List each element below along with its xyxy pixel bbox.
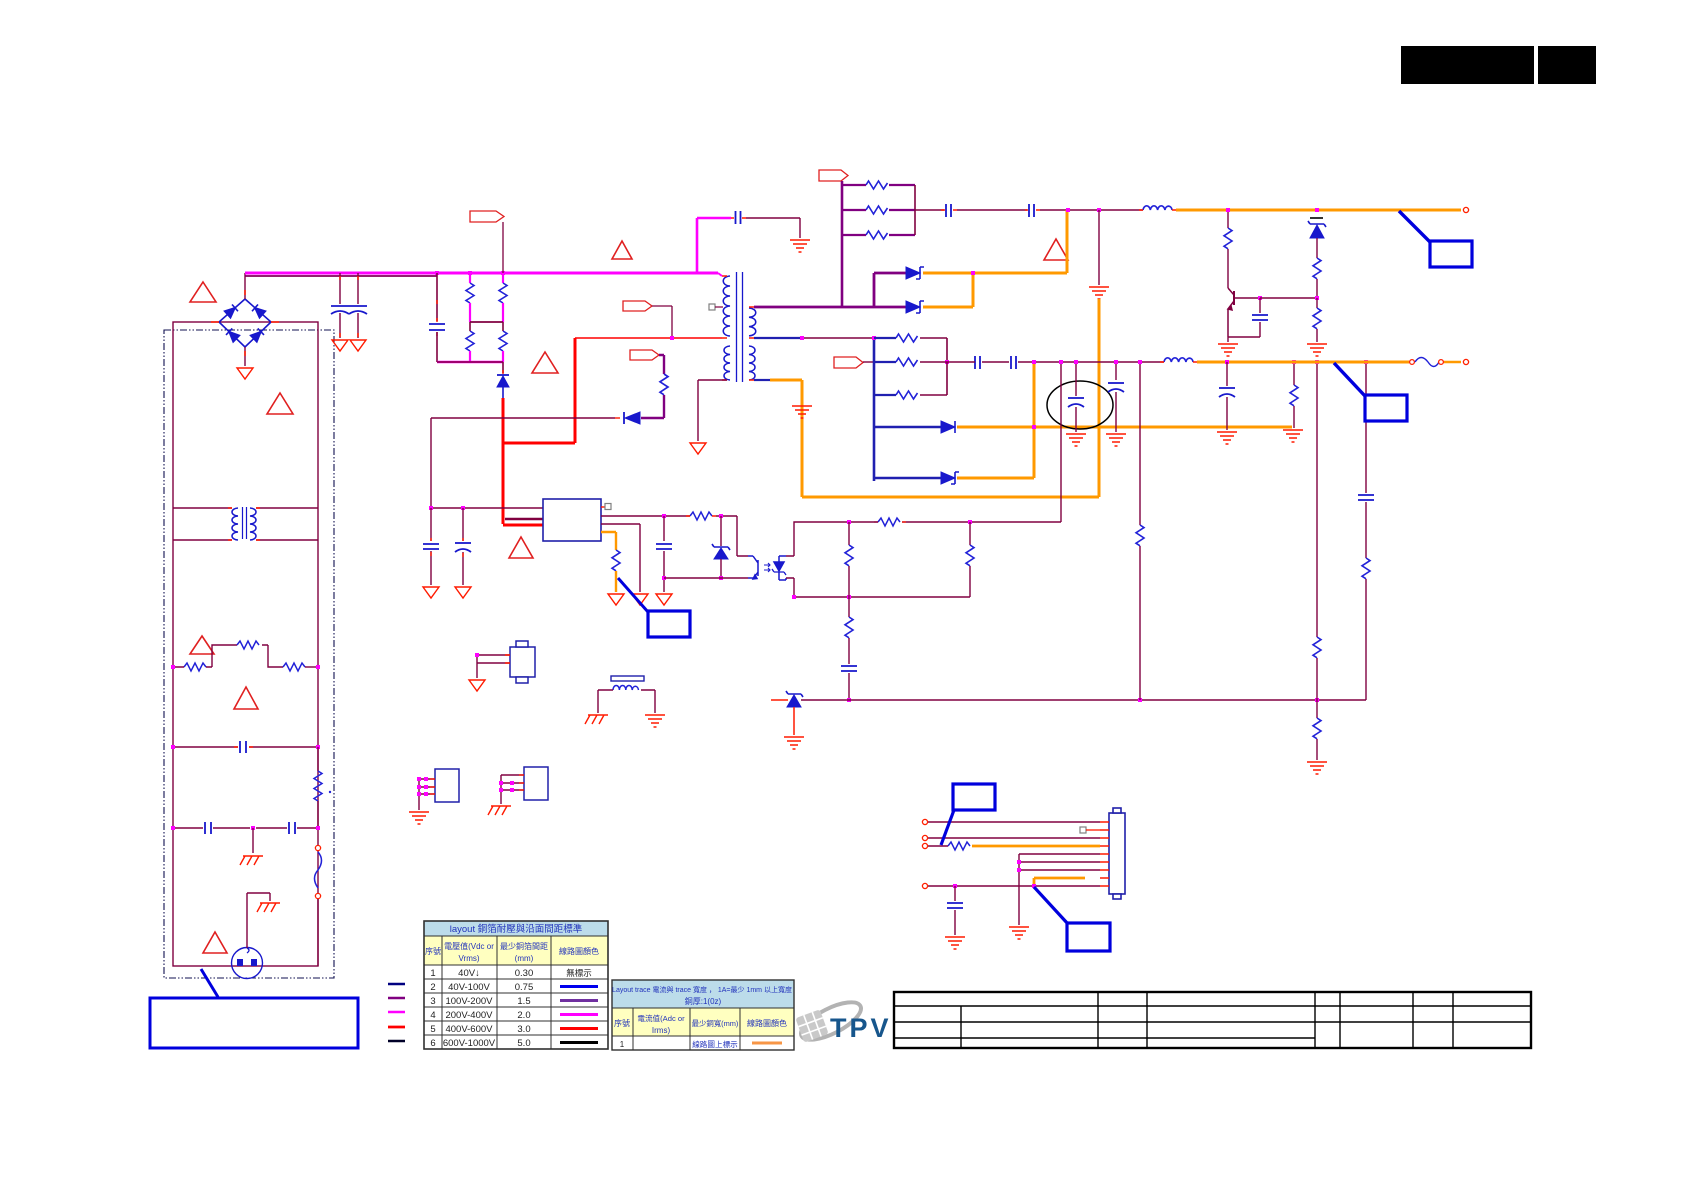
wire bridge bottom to ground	[244, 347, 246, 366]
feedback riser x1061	[902, 362, 1061, 522]
wires CN1	[419, 779, 435, 810]
diode D4	[874, 301, 924, 313]
cap C15	[1108, 362, 1124, 432]
cap C6	[256, 822, 318, 834]
J1 p2 nc square	[1080, 827, 1086, 833]
warning triangle T6	[509, 537, 533, 558]
wire J1 p5-p7 bus	[1019, 854, 1100, 925]
svg-text:1: 1	[430, 968, 435, 979]
wires choke	[173, 508, 318, 540]
node bus junctions	[435, 271, 439, 275]
svg-text:40V↓: 40V↓	[458, 968, 480, 979]
resistor R2 (vertical)	[466, 322, 474, 362]
svg-text:5.0: 5.0	[517, 1038, 530, 1049]
svg-text:線路圖顏色: 線路圖顏色	[559, 946, 599, 956]
T1 primary top link	[718, 273, 722, 276]
resistor R22	[794, 522, 974, 597]
legend dash row4	[388, 1011, 405, 1014]
ground J1 bus	[1009, 927, 1029, 939]
snubber ladder bus left	[841, 181, 844, 307]
AC input inner box wire frame	[173, 322, 318, 966]
net flag F2	[623, 301, 652, 311]
resistor R28	[1313, 700, 1321, 760]
main transformer T1	[723, 272, 756, 382]
transistor Q1	[1228, 288, 1260, 337]
resistor R18	[874, 334, 947, 362]
svg-text:400V-600V: 400V-600V	[445, 1024, 493, 1035]
svg-text:3.0: 3.0	[517, 1024, 530, 1035]
wire bridge top	[244, 273, 246, 299]
diode D1 boost	[497, 370, 509, 398]
wire R mid link	[470, 321, 503, 323]
resistor R17	[1313, 298, 1321, 342]
terminal p4	[922, 843, 927, 848]
wire red pair into IC	[505, 518, 543, 520]
diode D2	[615, 412, 664, 424]
ground R17	[1307, 344, 1327, 356]
wire J1 p4 with resistor R30	[927, 842, 1100, 850]
resistor R15	[1224, 210, 1232, 288]
wire C1 down	[436, 332, 438, 362]
resistor R25 drop x1140	[1136, 362, 1144, 700]
label box L1	[150, 998, 358, 1048]
wire sec1 row	[802, 337, 874, 339]
optocoupler U2	[748, 556, 786, 580]
diode D5	[874, 421, 955, 433]
diode D3	[906, 267, 924, 279]
orange rail 1	[1176, 209, 1461, 212]
snubber ladder bus right	[914, 185, 916, 235]
wire red to transformer	[575, 337, 722, 339]
svg-text:Irms): Irms)	[652, 1026, 671, 1035]
red pin ticks bridge	[211, 290, 279, 356]
ground D5 rail end	[1283, 430, 1303, 442]
svg-text:TPV: TPV	[830, 1013, 892, 1043]
orange rail 2	[1197, 361, 1409, 364]
cap C7	[656, 516, 672, 592]
svg-text:最少銅寬(mm): 最少銅寬(mm)	[692, 1019, 739, 1028]
AC mains magenta bus	[245, 272, 718, 275]
table trace width	[612, 980, 794, 1050]
svg-text:線路圖上標示: 線路圖上標示	[692, 1039, 738, 1049]
ground stub	[1089, 287, 1109, 299]
resistor R10	[686, 512, 748, 556]
svg-text:電流值(Adc or: 電流值(Adc or	[637, 1013, 685, 1023]
redaction block 1	[1401, 46, 1534, 84]
connector CN1	[435, 769, 459, 802]
ground C18	[1217, 432, 1237, 444]
label pointer rail1	[1399, 211, 1430, 242]
zener ZD1	[712, 516, 730, 578]
label box L5	[953, 784, 995, 810]
ground C19	[945, 937, 965, 949]
svg-text:600V-1000V: 600V-1000V	[443, 1038, 496, 1049]
wire F2 stem	[652, 306, 672, 338]
wire J1 p9	[927, 885, 1100, 887]
label pointer R11	[618, 578, 648, 612]
warning triangle T5	[234, 687, 258, 709]
legend dash row6	[388, 1040, 405, 1043]
X-cap C4	[173, 741, 318, 753]
label box L4	[1430, 241, 1472, 267]
node x672	[670, 336, 674, 340]
cap C2	[423, 508, 439, 585]
cap C12	[944, 356, 1009, 369]
svg-text:1.5: 1.5	[517, 996, 530, 1007]
ground X1	[469, 680, 485, 691]
label box L3	[1365, 395, 1407, 421]
svg-text:4: 4	[430, 1010, 435, 1021]
ground under bridge	[237, 368, 253, 379]
svg-text:線路圖顏色: 線路圖顏色	[747, 1018, 787, 1028]
bridge rectifier BD1	[219, 299, 271, 347]
legend dash row3	[388, 997, 405, 1000]
T1 aux pin square	[709, 304, 715, 310]
ground R11	[608, 594, 624, 605]
wires X1	[477, 655, 510, 678]
wire base to zener chain	[1260, 297, 1317, 299]
wire y578 link	[664, 577, 748, 579]
resistor R6	[173, 663, 212, 671]
ground tap orange	[792, 406, 812, 418]
ground C3	[455, 587, 471, 598]
output connector J1	[1109, 808, 1125, 899]
cap C11	[1228, 298, 1268, 337]
ground CN1	[409, 812, 429, 824]
wire ladder out	[915, 209, 944, 211]
chassis stub rail1	[1098, 210, 1100, 285]
sense branch x1366: cap C17	[1358, 362, 1374, 558]
resistor R14	[842, 231, 915, 239]
inductor L1	[1139, 206, 1176, 210]
inductor L2	[1160, 358, 1197, 362]
legend dash row5	[388, 1026, 405, 1029]
zener ZD2	[1308, 218, 1326, 258]
secondary1 orange pin	[754, 379, 770, 381]
svg-text:0.75: 0.75	[515, 982, 534, 993]
thermistor X1	[510, 641, 535, 683]
resistor R4 (vertical)	[499, 322, 507, 362]
svg-text:6: 6	[430, 1038, 435, 1049]
cap C3 electrolytic	[455, 508, 471, 585]
svg-text:2: 2	[430, 982, 435, 993]
common-mode choke LF1	[232, 507, 256, 540]
label pointer J1 bottom	[1034, 887, 1068, 924]
net flag F4	[819, 170, 848, 181]
resistor R1 (vertical)	[466, 273, 474, 322]
earth ground CN2	[488, 806, 511, 815]
svg-text:1: 1	[620, 1040, 625, 1049]
wire magenta link	[437, 361, 503, 364]
divider x1317: resistor R27	[1313, 362, 1321, 700]
terminal p3	[922, 835, 927, 840]
svg-text:序號: 序號	[425, 946, 441, 956]
terminal rail1	[1463, 207, 1468, 212]
wire red branch	[503, 338, 575, 443]
resistor R29	[1362, 558, 1370, 700]
svg-text:銅厚:1(0z): 銅厚:1(0z)	[685, 996, 722, 1006]
T1 pin ticks	[722, 276, 754, 380]
resistor R21	[794, 518, 906, 526]
Y-cap CY2	[349, 273, 367, 338]
ground CY1	[332, 340, 348, 351]
warning triangle T4	[190, 636, 214, 654]
cap C8	[731, 211, 800, 238]
warning triangle T9	[1044, 239, 1068, 260]
svg-text:無標示: 無標示	[566, 968, 592, 978]
connector CN2	[524, 767, 548, 800]
bus maroon shadow	[245, 275, 437, 277]
svg-text:Vrms): Vrms)	[458, 954, 479, 963]
cap C5	[173, 822, 250, 834]
resistor R19	[874, 358, 944, 366]
label pointer J1 top	[941, 810, 954, 845]
wire C5-C6 mid to ground	[252, 828, 254, 853]
U1 pin stub square	[601, 506, 605, 508]
rail2 caps: cap C14	[1068, 362, 1084, 432]
divider chain x849: resistor R23	[845, 522, 853, 597]
wire J1 p3	[927, 837, 1100, 839]
net flag F5	[834, 357, 863, 368]
earth ground E2	[257, 903, 280, 912]
earth ground FB1 left	[585, 715, 608, 724]
ground U1	[632, 594, 648, 605]
ground Q1 emitter	[1227, 337, 1229, 342]
ground ZD3	[784, 737, 804, 749]
resistor R12	[842, 181, 915, 189]
AC input dashed shield box	[164, 330, 334, 978]
wire J1 p8 orange	[1034, 878, 1085, 886]
orange rectifier out 1	[923, 210, 1067, 273]
wire U1 gnd pin	[601, 524, 640, 592]
svg-text:(mm): (mm)	[515, 954, 534, 963]
table clearance standards	[424, 921, 608, 1049]
ground C15	[1106, 434, 1126, 446]
terminal rail2	[1463, 359, 1468, 364]
terminal p1	[922, 819, 927, 824]
svg-text:Layout trace 電流與 trace 寬度 ， 1A: Layout trace 電流與 trace 寬度 ， 1A=最少 1mm 以上…	[612, 985, 792, 994]
resistor R26 drop x1294	[1290, 362, 1298, 428]
svg-text:2.0: 2.0	[517, 1010, 530, 1021]
zener ZD3	[771, 691, 803, 735]
cap C10	[1025, 204, 1143, 217]
title block table	[894, 992, 1531, 1048]
ground T1 return	[690, 443, 706, 454]
warning triangle T3	[532, 352, 558, 373]
switch SW1	[315, 845, 322, 966]
resistor R8	[283, 663, 318, 671]
resistor R5 (vertical thick purple leads)	[659, 355, 668, 418]
secondary1 pin wire	[754, 337, 802, 339]
ground R28	[1307, 762, 1327, 774]
wire y700 bus	[801, 699, 1366, 701]
svg-text:5: 5	[430, 1024, 435, 1035]
jumper JP1	[1410, 358, 1461, 367]
label box L6	[1067, 923, 1110, 951]
snubber cap branch magenta riser	[697, 218, 731, 273]
wire U1 cs pin orange	[601, 532, 616, 550]
bead inductor FB1	[598, 676, 655, 713]
cap C1	[429, 324, 445, 330]
wire F1 to bus	[502, 222, 504, 273]
cap C16	[841, 666, 857, 700]
ground FB1 right	[645, 715, 665, 727]
warning triangle T8	[203, 932, 227, 953]
cap C9	[941, 204, 1027, 217]
orange rectifier out 2	[923, 273, 973, 307]
T1 bottom-left return	[698, 380, 727, 441]
cap C19	[947, 886, 963, 935]
warning triangle T1	[190, 282, 216, 302]
resistor R11 sense	[612, 550, 620, 592]
terminal p9	[922, 883, 927, 888]
ground CY2	[350, 340, 366, 351]
svg-text:最少銅箔間距: 最少銅箔間距	[500, 941, 548, 951]
ground C8	[790, 240, 810, 252]
label pointer plug	[201, 969, 218, 997]
svg-text:layout 銅箔耐壓與沿面間距標準: layout 銅箔耐壓與沿面間距標準	[450, 923, 583, 935]
warning triangle T2	[267, 393, 293, 414]
svg-text:0.30: 0.30	[515, 968, 534, 979]
ground C14	[1066, 434, 1086, 446]
Y-cap CY1	[331, 273, 349, 338]
svg-text:3: 3	[430, 996, 435, 1007]
J1 pin stubs	[1100, 822, 1109, 886]
AC plug P1	[232, 893, 271, 979]
orange drop x1099	[802, 299, 1099, 497]
wire opto bottom right	[786, 578, 794, 597]
primary aux thick purple	[754, 273, 906, 307]
warning triangle T7	[612, 241, 632, 259]
resistor R16	[1313, 258, 1321, 298]
resistor R13	[842, 206, 915, 214]
net flag F1	[470, 211, 504, 222]
earth ground E1	[240, 856, 263, 865]
wire snubber bottom	[437, 362, 503, 373]
wire J1 p1	[927, 821, 1100, 823]
svg-text:電壓值(Vdc or: 電壓值(Vdc or	[444, 941, 494, 951]
label box L2	[648, 611, 690, 637]
wire opto top right	[786, 524, 794, 556]
ground C2	[423, 587, 439, 598]
wire VCC rail to IC	[431, 507, 543, 509]
resistor R7	[212, 641, 283, 667]
svg-text:序號: 序號	[614, 1018, 630, 1028]
secondary2 bus blue	[873, 338, 876, 481]
wire F5 stem	[863, 361, 874, 363]
redaction block 2	[1538, 46, 1596, 84]
cap C13	[1011, 356, 1164, 369]
resistor R24	[845, 597, 853, 664]
wire D2 to corner	[431, 418, 615, 508]
label pointer rail2	[1334, 363, 1365, 396]
PWM IC U1	[543, 499, 601, 541]
orange out D5	[957, 426, 1292, 429]
orange out D6 riser	[957, 362, 1034, 478]
svg-text:200V-400V: 200V-400V	[445, 1010, 493, 1021]
resistor R9 bleeder	[314, 747, 331, 828]
wire thick red B+	[502, 398, 505, 524]
wires CN2	[501, 775, 524, 804]
legend dash row2	[388, 983, 405, 986]
ellipse highlight	[1047, 381, 1113, 429]
wire bus drop x437	[436, 273, 438, 321]
resistor R20	[874, 362, 947, 399]
TPV logo	[795, 995, 891, 1047]
resistor R3 (vertical)	[499, 273, 507, 322]
ground C7	[656, 594, 672, 605]
svg-text:40V-100V: 40V-100V	[448, 982, 490, 993]
svg-text:100V-200V: 100V-200V	[445, 996, 493, 1007]
net flag F3	[630, 350, 659, 360]
cap C18 drop	[1219, 362, 1235, 430]
wire U1 feedback pin	[601, 515, 690, 517]
diode D6	[874, 472, 959, 484]
